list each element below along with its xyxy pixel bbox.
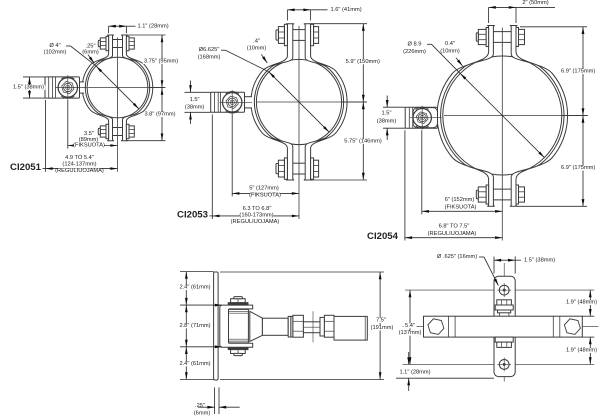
svg-text:6.9" (175mm): 6.9" (175mm) [561, 165, 595, 171]
svg-text:(124-137mm): (124-137mm) [62, 161, 96, 167]
svg-text:(6mm): (6mm) [82, 49, 99, 55]
svg-text:(168mm): (168mm) [198, 54, 221, 60]
svg-text:1.9" (48mm): 1.9" (48mm) [566, 348, 597, 354]
svg-text:1.5": 1.5" [382, 110, 392, 116]
svg-text:6.8" TO 7.5": 6.8" TO 7.5" [439, 223, 470, 229]
svg-text:6.3 TO 6.8": 6.3 TO 6.8" [243, 206, 272, 212]
svg-text:(FIKSUOTA): (FIKSUOTA) [249, 193, 281, 199]
svg-text:Ø6.625": Ø6.625" [199, 47, 220, 53]
svg-text:Ø 4": Ø 4" [49, 43, 60, 49]
svg-text:(10mm): (10mm) [247, 46, 267, 52]
svg-text:(137mm): (137mm) [399, 330, 422, 336]
svg-text:CI2053: CI2053 [177, 209, 208, 220]
svg-text:(160-173mm): (160-173mm) [239, 212, 273, 218]
svg-text:6" (152mm): 6" (152mm) [445, 197, 475, 203]
svg-text:3.8" (97mm): 3.8" (97mm) [144, 112, 175, 118]
svg-text:2" (50mm): 2" (50mm) [522, 0, 548, 6]
svg-text:.25": .25" [195, 403, 205, 409]
svg-text:5" (127mm): 5" (127mm) [249, 185, 279, 191]
svg-text:CI2054: CI2054 [367, 231, 399, 242]
svg-text:1.5": 1.5" [190, 97, 200, 103]
svg-text:1.5" (38mm): 1.5" (38mm) [13, 85, 44, 91]
svg-text:CI2051: CI2051 [10, 162, 42, 173]
svg-text:3.75" (95mm): 3.75" (95mm) [144, 59, 178, 65]
svg-text:0.4": 0.4" [445, 41, 455, 47]
svg-text:7.5": 7.5" [376, 318, 386, 324]
svg-text:(6mm): (6mm) [194, 410, 211, 416]
svg-text:(191mm): (191mm) [371, 325, 394, 331]
svg-text:1.1" (28mm): 1.1" (28mm) [399, 369, 430, 375]
svg-text:Ø .625" (16mm): Ø .625" (16mm) [437, 254, 477, 260]
svg-text:5.75" (146mm): 5.75" (146mm) [344, 139, 382, 145]
svg-text:2.4" (61mm): 2.4" (61mm) [179, 285, 210, 291]
svg-text:1.6" (41mm): 1.6" (41mm) [331, 7, 362, 13]
svg-text:6.9" (175mm): 6.9" (175mm) [561, 69, 595, 75]
svg-text:4.9 TO 5.4": 4.9 TO 5.4" [65, 155, 94, 161]
svg-text:(226mm): (226mm) [403, 49, 426, 55]
svg-text:1.9" (48mm): 1.9" (48mm) [566, 300, 597, 306]
svg-text:(38mm): (38mm) [377, 119, 397, 125]
svg-text:1.1" (28mm): 1.1" (28mm) [138, 24, 169, 30]
svg-text:5.9" (150mm): 5.9" (150mm) [346, 59, 380, 65]
svg-text:(REGULIUOJAMA): (REGULIUOJAMA) [231, 219, 280, 225]
svg-text:(FIKSUOTA): (FIKSUOTA) [445, 204, 477, 210]
svg-text:(102mm): (102mm) [44, 50, 67, 56]
svg-text:(FIKSUOTA): (FIKSUOTA) [73, 143, 105, 149]
svg-text:(38mm): (38mm) [185, 104, 205, 110]
svg-text:Ø 8.9: Ø 8.9 [408, 41, 422, 47]
svg-text:(REGULIUOJAMA): (REGULIUOJAMA) [428, 231, 477, 237]
svg-text:(REGULIUOJAMA): (REGULIUOJAMA) [55, 168, 104, 174]
svg-text:.4": .4" [253, 39, 260, 45]
svg-text:2.8" (71mm): 2.8" (71mm) [179, 323, 210, 329]
svg-text:2.4" (61mm): 2.4" (61mm) [179, 361, 210, 367]
svg-text:1.5" (38mm): 1.5" (38mm) [524, 257, 555, 263]
svg-text:(10mm): (10mm) [440, 49, 460, 55]
svg-text:5.4": 5.4" [405, 323, 415, 329]
